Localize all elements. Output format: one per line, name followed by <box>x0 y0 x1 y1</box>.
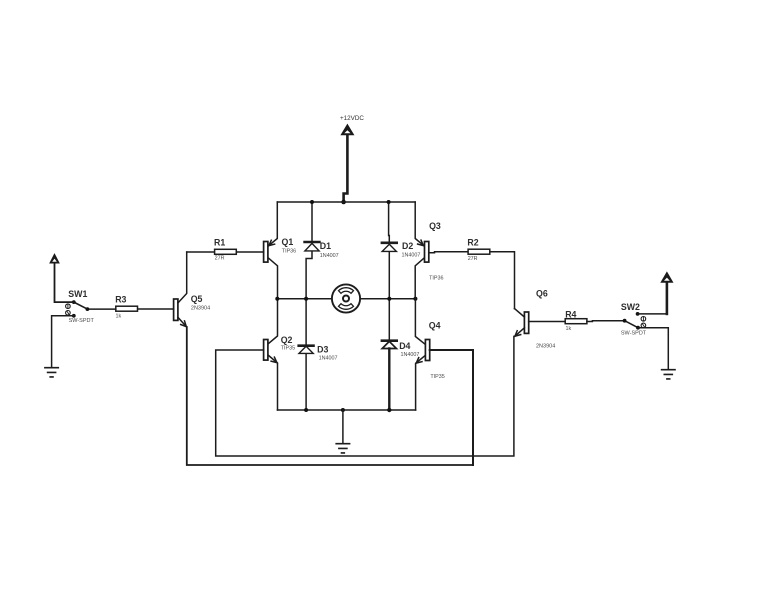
wire: D2 branch from rail to motor row <box>388 202 391 299</box>
junction dots on motor row <box>275 297 279 301</box>
svg-text:Q5: Q5 <box>191 294 203 304</box>
wire: Q3 base to R2 and down to Q6 collector <box>429 252 515 309</box>
resistor R4 <box>565 319 587 324</box>
node power arrow (right) <box>662 273 673 282</box>
diode D2 <box>382 243 397 252</box>
svg-text:1N4007: 1N4007 <box>319 355 338 361</box>
transistor Q4 <box>425 340 429 361</box>
wire: R1 row (Q5 collector corner to Q1 base) <box>187 251 264 253</box>
svg-text:Q6: Q6 <box>536 289 548 299</box>
wire: loop B (Q5 emitter to Q4 base row) <box>187 327 473 465</box>
wire: D3 branch from motor row to bottom rail <box>305 299 307 410</box>
wire: D4 branch upper from motor row <box>388 299 390 340</box>
wire: Q5 base row <box>138 308 174 310</box>
wire: motor row (left half) <box>277 298 332 300</box>
wire: SW2 bottom contact to ground <box>638 328 668 370</box>
wire: D4 branch lower to bottom rail (thick) <box>388 349 390 411</box>
wire: Q3 emitter from rail <box>415 202 424 246</box>
transistor Q1 <box>264 242 268 263</box>
wire: Q4 collector up to motor row <box>415 299 425 345</box>
svg-text:D3: D3 <box>317 345 328 355</box>
svg-text:SW2: SW2 <box>621 302 640 312</box>
svg-text:D2: D2 <box>402 241 413 251</box>
junction: D1 top on rail <box>310 200 314 204</box>
svg-text:1k: 1k <box>566 326 572 332</box>
wire: loop A (Q2 base to Q6 emitter) <box>216 336 514 456</box>
svg-text:+12VDC: +12VDC <box>340 115 364 122</box>
wire: Q4 emitter down to bottom rail <box>416 355 426 410</box>
svg-text:27R: 27R <box>215 256 225 262</box>
junction: power tap on top rail <box>341 200 346 205</box>
svg-text:Q3: Q3 <box>429 221 441 231</box>
transistor Q5 <box>174 252 187 327</box>
junction: D2 top on rail <box>387 200 391 204</box>
switch SW1 <box>66 300 90 317</box>
resistor R1 <box>215 249 237 254</box>
svg-text:TIP35: TIP35 <box>430 374 444 380</box>
diode D3 <box>299 346 314 354</box>
svg-text:2N3904: 2N3904 <box>536 344 555 350</box>
wire: SW1 top contact to power arrow <box>55 263 74 303</box>
wire: motor row (right half) <box>360 298 415 300</box>
wire: Q4 base to feedback loop (thick) <box>430 350 473 465</box>
svg-text:2N3904: 2N3904 <box>191 306 210 312</box>
svg-text:Q1: Q1 <box>282 237 294 247</box>
motor M1 <box>332 284 360 312</box>
wire: D1 branch from rail to motor row (with jog) <box>306 202 312 299</box>
wire: SW2 top contact to power arrow <box>638 313 667 315</box>
node +12VDC power arrow <box>342 125 353 201</box>
ground (center) <box>336 410 349 453</box>
junction dots on bottom rail <box>304 408 308 412</box>
wire: Q6 base to R4 <box>529 321 566 323</box>
wire: bottom rail <box>278 409 416 411</box>
node power arrow (left) <box>50 255 58 263</box>
wire: SW1 pole to R3 <box>87 308 115 310</box>
ground (right) <box>662 370 675 379</box>
resistor R2 <box>468 249 490 254</box>
wire: SW1 bottom contact to ground <box>52 316 74 368</box>
svg-text:TIP36: TIP36 <box>429 275 443 281</box>
wire: Q1 collector down to motor row <box>268 258 278 299</box>
wire: R4 to SW2 pole <box>587 320 625 323</box>
diode D1 <box>305 242 320 251</box>
transistor Q2 <box>264 340 268 361</box>
svg-text:R3: R3 <box>115 294 126 304</box>
svg-text:SW1: SW1 <box>68 289 87 299</box>
svg-text:SW-SPDT: SW-SPDT <box>621 331 647 337</box>
svg-text:D4: D4 <box>399 341 410 351</box>
svg-text:1N4007: 1N4007 <box>402 253 421 259</box>
svg-text:R2: R2 <box>467 238 478 248</box>
svg-text:SW-SPDT: SW-SPDT <box>69 318 95 324</box>
svg-text:TIP36: TIP36 <box>282 248 296 254</box>
switch SW2 <box>623 312 646 330</box>
wire: Q2 emitter down to bottom rail <box>268 355 278 410</box>
wire: Q2 collector up to motor row <box>268 299 278 344</box>
wire: Q1 emitter from rail <box>268 202 277 246</box>
svg-text:Q2: Q2 <box>281 335 293 345</box>
svg-text:Q4: Q4 <box>429 320 441 330</box>
svg-text:1N4007: 1N4007 <box>320 253 339 259</box>
svg-text:1N4007: 1N4007 <box>401 352 420 358</box>
ground (left) <box>45 368 58 377</box>
svg-text:R4: R4 <box>565 309 576 319</box>
svg-text:TIP35: TIP35 <box>281 345 295 351</box>
svg-text:R1: R1 <box>214 238 225 248</box>
diode D4 <box>382 341 397 349</box>
transistor Q3 <box>425 242 429 263</box>
wire: Q3 collector down to motor row <box>415 258 424 299</box>
svg-text:1k: 1k <box>116 313 122 319</box>
svg-text:27R: 27R <box>468 256 478 262</box>
transistor Q6 <box>515 309 529 337</box>
wire: top +12V rail <box>277 201 415 203</box>
resistor R3 <box>116 306 138 311</box>
svg-text:D1: D1 <box>320 241 331 251</box>
